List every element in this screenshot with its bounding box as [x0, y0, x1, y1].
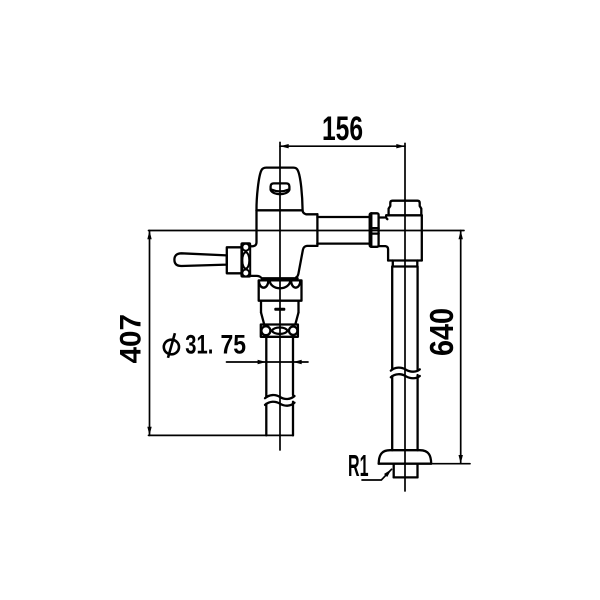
- spud taper right: [295, 313, 298, 325]
- spud lower nut lens middle: [272, 327, 288, 333]
- flange neck right: [416, 464, 418, 478]
- handle coupling box: [241, 243, 250, 276]
- svg-text:407: 407: [115, 314, 148, 364]
- floor flange bottom line: [379, 463, 432, 465]
- outlet boss top step: [303, 211, 318, 215]
- supply pipe lower right edge: [416, 375, 418, 450]
- dome joint line: [257, 209, 303, 211]
- valve dome cap: [256, 168, 302, 211]
- dimension 640 line: [460, 231, 462, 464]
- svg-text:75: 75: [221, 330, 247, 360]
- right body right edge: [421, 215, 423, 260]
- spud lower nut ball left: [261, 326, 270, 335]
- arrow 640 top: [459, 231, 463, 240]
- handle coupling middle ellipse: [242, 252, 249, 268]
- spud mid section right side: [297, 301, 299, 313]
- horizontal pipe bottom edge: [317, 242, 369, 244]
- handle coupling top ball: [242, 244, 249, 251]
- right body bottom edge: [388, 259, 422, 261]
- svg-text:31.: 31.: [185, 330, 213, 360]
- arrow 407 top: [147, 231, 151, 240]
- arrow phi right: [293, 360, 302, 364]
- drop pipe break lower wave: [265, 402, 295, 406]
- union nut inner line: [370, 213, 372, 247]
- dimension 156 line: [280, 145, 405, 147]
- outlet boss bottom step and body lower right side: [296, 246, 317, 278]
- horizontal pipe axis line: [149, 230, 465, 232]
- spud taper left: [261, 313, 264, 325]
- spud set screw slot: [274, 308, 285, 311]
- spud lower nut box: [261, 325, 298, 337]
- svg-text:156: 156: [322, 110, 363, 148]
- R1 leader line: [362, 469, 392, 480]
- outlet boss face: [316, 214, 318, 246]
- valve body left edge: [250, 210, 257, 246]
- drop pipe upper left edge: [265, 337, 267, 397]
- label phi 31.75: [164, 333, 179, 358]
- right body cap: [389, 201, 422, 216]
- union nut chamfer line lower: [371, 232, 378, 234]
- handle lever: [174, 253, 226, 266]
- oval slot on dome: [271, 183, 290, 194]
- supply pipe upper right edge: [416, 266, 418, 370]
- supply pipe break lower wave: [391, 374, 420, 378]
- dimension phi31.75 line: [227, 361, 309, 363]
- union nut chamfer line upper: [371, 227, 378, 229]
- drop pipe upper right edge: [292, 337, 294, 395]
- collar below right body: [393, 261, 418, 267]
- drop pipe lower left edge: [265, 404, 267, 436]
- horizontal pipe top edge: [317, 216, 369, 218]
- drop pipe break upper wave: [265, 395, 295, 399]
- spud nut chamfer right: [291, 281, 300, 288]
- arrow 156 right: [396, 144, 405, 148]
- handle coupling bottom ball: [242, 270, 249, 277]
- oval slot inner lens line: [271, 190, 288, 192]
- arrow 407 bottom: [147, 427, 151, 436]
- union nut on horizontal pipe: [370, 213, 379, 247]
- supply pipe lower left edge: [391, 376, 393, 450]
- centerline supply pipe axis (right vertical): [404, 143, 406, 491]
- handle packing block: [227, 247, 242, 273]
- floor flange dome: [379, 450, 432, 463]
- R1 leader arrowhead: [384, 469, 392, 477]
- body neck to handle bottom: [250, 276, 261, 278]
- right body joint line: [386, 214, 422, 216]
- centerline valve axis (left vertical): [279, 142, 281, 450]
- spud nut chamfer middle: [270, 281, 290, 289]
- floor line extension: [431, 463, 470, 465]
- flange neck bottom: [394, 476, 418, 478]
- svg-text:R1: R1: [348, 448, 369, 483]
- adapter bottom step and body lower-left corner: [379, 246, 389, 260]
- drop pipe lower right edge: [292, 402, 294, 436]
- adapter top edge: [379, 216, 385, 218]
- spud lower nut ball right: [289, 327, 297, 335]
- spud nut chamfer left: [259, 281, 268, 288]
- spud mid section left side: [260, 301, 262, 313]
- arrow 640 bottom: [459, 455, 463, 464]
- svg-text:640: 640: [423, 308, 460, 356]
- arrow phi left: [258, 360, 267, 364]
- arrow 156 left: [280, 144, 289, 148]
- spud coupling nut: [259, 280, 302, 300]
- valve body bottom rim (dark band): [261, 277, 299, 280]
- flange neck left: [393, 464, 395, 478]
- supply pipe break upper wave: [391, 368, 420, 372]
- supply pipe upper left edge: [391, 266, 393, 369]
- extension line bottom of 407 / spud pipe bottom: [149, 434, 294, 436]
- right body casting squiggle: [386, 215, 387, 219]
- dimension 407 line: [149, 231, 151, 436]
